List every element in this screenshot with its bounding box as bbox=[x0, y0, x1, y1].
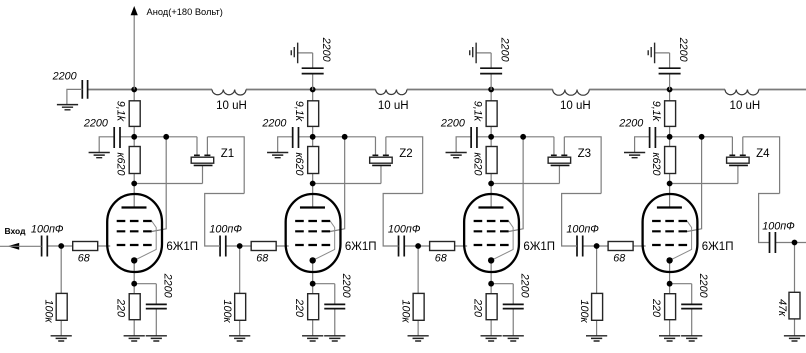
svg-text:Z2: Z2 bbox=[399, 148, 412, 160]
svg-text:100пФ: 100пФ bbox=[762, 220, 795, 232]
svg-text:Анод(+180 Вольт): Анод(+180 Вольт) bbox=[147, 7, 223, 17]
svg-text:10 uH: 10 uH bbox=[216, 100, 247, 112]
svg-text:47к: 47к bbox=[776, 299, 788, 317]
svg-text:Z3: Z3 bbox=[578, 148, 591, 160]
svg-text:Вход: Вход bbox=[5, 226, 27, 236]
svg-text:Z4: Z4 bbox=[756, 148, 770, 160]
svg-text:Z1: Z1 bbox=[221, 148, 234, 160]
svg-text:10 uH: 10 uH bbox=[560, 100, 591, 112]
svg-text:2200: 2200 bbox=[52, 71, 77, 83]
svg-text:10 uH: 10 uH bbox=[378, 100, 409, 112]
svg-text:10 uH: 10 uH bbox=[730, 100, 761, 112]
